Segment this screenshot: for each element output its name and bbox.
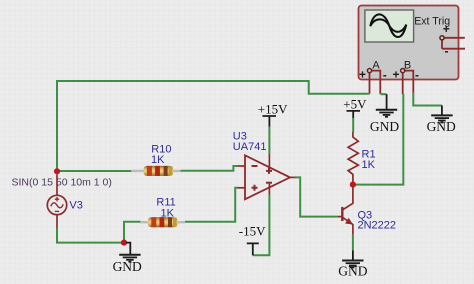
- node V3 top junction: [54, 168, 131, 174]
- ground B: [427, 106, 456, 134]
- opamp V- pin: [268, 184, 270, 195]
- wire B minus to ground: [413, 93, 442, 106]
- svg-text:1K: 1K: [151, 154, 165, 166]
- wire A minus to ground: [380, 93, 386, 95]
- ground junction symbol: [113, 243, 142, 274]
- opamp V+ pin: [268, 153, 270, 170]
- wire +5V to R1: [352, 118, 354, 132]
- svg-text:SIN(0 15 50 10m 1 0): SIN(0 15 50 10m 1 0): [12, 177, 112, 189]
- wire emitter to ground: [352, 235, 354, 251]
- svg-text:+: +: [392, 67, 399, 81]
- svg-text:GND: GND: [338, 264, 367, 279]
- svg-text:-15V: -15V: [239, 224, 266, 239]
- node ground junction: [121, 240, 127, 246]
- oscilloscope body: [359, 6, 459, 80]
- wire ext trig stubs: [442, 38, 465, 49]
- op-amp U3: [238, 155, 296, 199]
- svg-text:2N2222: 2N2222: [358, 220, 397, 232]
- pin B: [401, 69, 405, 73]
- transistor Q3: [337, 186, 353, 235]
- wire R11 to opamp noninverting input: [185, 188, 238, 222]
- svg-text:-: -: [445, 44, 449, 58]
- svg-text:-: -: [383, 68, 387, 82]
- node collector junction: [350, 182, 356, 188]
- power terminal +15V: [263, 116, 277, 127]
- resistor R1: [348, 132, 358, 183]
- wire V3 bottom to ground junction: [56, 222, 140, 243]
- oscilloscope screen: [365, 10, 414, 42]
- resistor R10: [131, 166, 180, 176]
- wire +15V to opamp: [268, 127, 270, 154]
- svg-text:+15V: +15V: [258, 102, 288, 117]
- voltage source V3: [47, 175, 66, 229]
- pin ext trig: [440, 36, 444, 40]
- wire signal from V3 to scope A: [57, 81, 370, 170]
- svg-text:+5V: +5V: [343, 96, 367, 111]
- ground emitter: [338, 251, 367, 279]
- power terminal -15V: [247, 243, 259, 255]
- power terminal +5V: [347, 111, 361, 118]
- svg-text:GND: GND: [427, 119, 456, 134]
- svg-text:+: +: [359, 67, 366, 81]
- wire R10 to opamp inverting input: [180, 166, 237, 171]
- svg-text:1K: 1K: [362, 159, 376, 171]
- svg-text:V3: V3: [69, 200, 82, 212]
- wire channel A bracket: [370, 71, 381, 94]
- svg-text:UA741: UA741: [233, 141, 267, 153]
- svg-text:1K: 1K: [161, 208, 175, 220]
- svg-text:GND: GND: [113, 259, 142, 274]
- svg-text:GND: GND: [370, 119, 399, 134]
- wire opamp V- to -15V: [253, 195, 270, 256]
- wire channel B bracket: [403, 71, 414, 94]
- ground A: [370, 94, 399, 134]
- pin A: [367, 69, 371, 73]
- wire opamp output to Q3 base: [295, 177, 337, 216]
- wire scope B to collector node: [353, 94, 403, 185]
- svg-text:-: -: [415, 68, 419, 82]
- svg-text:+: +: [443, 22, 450, 36]
- resistor R11: [140, 217, 185, 227]
